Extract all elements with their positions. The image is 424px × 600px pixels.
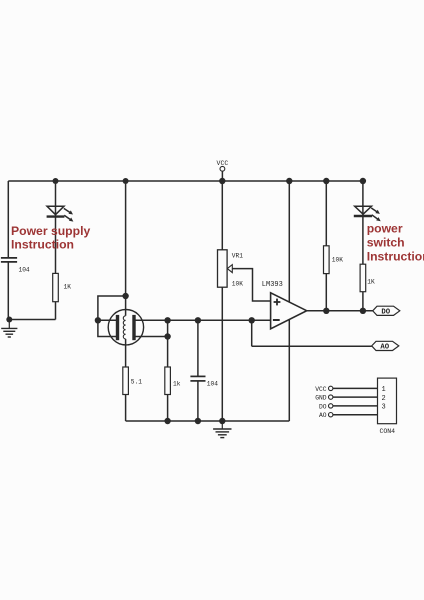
- wire 1k branch vertical: [167, 320, 169, 421]
- CON4 pin 4 wire: [333, 414, 378, 416]
- svg-text:2: 2: [382, 395, 386, 403]
- wire VCC terminal to rail: [221, 171, 223, 181]
- resistor 1k body: [165, 367, 171, 395]
- svg-text:power: power: [367, 222, 403, 236]
- op-amp plus sign: [274, 301, 281, 303]
- node junction rail/10K: [323, 178, 329, 184]
- wire AO tap vertical: [251, 320, 253, 346]
- LED D1 triangle: [47, 206, 64, 215]
- resistor 10K body: [324, 246, 330, 274]
- wire 10K branch vertical: [325, 181, 327, 311]
- wire VR1 wiper to plus input: [232, 269, 270, 301]
- gas sensor MQ body circle: [108, 310, 143, 345]
- wire VR1 branch vertical top: [221, 181, 223, 250]
- wire C2 branch upper: [197, 320, 199, 376]
- svg-text:1K: 1K: [64, 284, 72, 291]
- svg-text:104: 104: [207, 381, 218, 388]
- op-amp minus sign: [273, 319, 280, 321]
- wire lower electrode link: [134, 336, 168, 338]
- node junction rail/VCC: [219, 178, 225, 184]
- wire bottom ground rail: [126, 420, 290, 422]
- LED D1 light arrow 2: [64, 215, 71, 220]
- node junction output/10K: [323, 308, 329, 314]
- wire power switch LED branch vertical: [362, 181, 364, 311]
- op-amp U1 LM393 triangle: [271, 293, 307, 329]
- node junction lower electrode/1k: [164, 333, 170, 339]
- wire AO horizontal: [252, 345, 372, 347]
- VR1 wiper arrow: [227, 265, 232, 273]
- node junction rail/C2: [195, 418, 201, 424]
- wire VCC top rail: [8, 180, 363, 182]
- node junction rail/LED2: [360, 178, 366, 184]
- svg-text:AO: AO: [380, 344, 389, 352]
- svg-text:104: 104: [19, 267, 30, 274]
- potentiometer VR1 body: [218, 250, 228, 287]
- svg-text:5.1: 5.1: [131, 379, 142, 386]
- svg-text:10K: 10K: [232, 281, 243, 288]
- svg-text:VCC: VCC: [217, 160, 229, 167]
- LED D1 light arrow 1: [64, 208, 71, 213]
- ground symbol middle: [221, 421, 223, 429]
- wire 1K bottom to ground node: [8, 319, 55, 321]
- sensor heater coil: [123, 316, 125, 339]
- svg-text:VCC: VCC: [315, 386, 327, 393]
- svg-text:VR1: VR1: [232, 253, 243, 260]
- capacitor C1 plates: [1, 257, 17, 259]
- port flag AO: [372, 341, 399, 350]
- LED D2 light arrow 2: [372, 215, 379, 220]
- CON4 pin 2 wire: [333, 396, 378, 398]
- LED D2 cathode bar: [354, 215, 372, 218]
- LED D2 triangle: [355, 206, 372, 214]
- CON4 pin 1 wire: [333, 387, 378, 389]
- svg-text:1: 1: [382, 386, 386, 394]
- svg-text:CON4: CON4: [379, 428, 395, 435]
- wire divider line to comparator minus: [134, 319, 271, 321]
- svg-text:LM393: LM393: [262, 281, 283, 289]
- node junction rail/1k: [164, 418, 170, 424]
- wire LM393 supply vertical: [288, 181, 290, 421]
- svg-text:Instruction: Instruction: [11, 237, 74, 251]
- svg-text:switch: switch: [367, 235, 405, 249]
- svg-text:AO: AO: [319, 412, 327, 419]
- sensor right electrode: [132, 315, 135, 340]
- wire left vertical above C1: [7, 181, 9, 258]
- svg-text:1k: 1k: [173, 381, 181, 388]
- wire sensor branch vertical from rail: [125, 181, 127, 316]
- svg-text:DO: DO: [381, 308, 390, 316]
- connector CON4 body: [378, 378, 397, 424]
- node junction divider/1k: [164, 317, 170, 323]
- resistor 5.1 body: [123, 367, 129, 395]
- LED D2 light arrow 1: [371, 208, 377, 212]
- node junction rail/ground: [219, 418, 225, 424]
- svg-text:DO: DO: [319, 403, 327, 410]
- node junction rail/LM393 supply: [286, 178, 292, 184]
- sensor left electrode: [116, 315, 119, 340]
- wire C2 branch lower: [197, 381, 199, 421]
- node junction minus/AO: [249, 317, 255, 323]
- svg-text:GND: GND: [315, 395, 327, 402]
- VCC terminal circle: [220, 166, 225, 171]
- node junction left bracket: [95, 317, 101, 323]
- node junction output/1K: [360, 308, 366, 314]
- wire sensor bottom to 5.1 resistor: [125, 339, 127, 421]
- svg-text:Instruction: Instruction: [367, 249, 424, 263]
- svg-text:10K: 10K: [332, 257, 343, 264]
- svg-text:3: 3: [382, 404, 386, 412]
- wire power LED branch vertical: [55, 181, 57, 320]
- wire VR1 branch vertical bottom: [221, 287, 223, 421]
- svg-text:1K: 1K: [367, 279, 375, 286]
- wire left electrode mid tap: [98, 319, 118, 321]
- CON4 pin 3 wire: [333, 405, 378, 407]
- node junction rail/LED branch: [53, 178, 59, 184]
- wire left vertical below C1: [7, 262, 9, 320]
- resistor R1 1K body: [53, 273, 59, 301]
- capacitor C2 plates: [190, 375, 205, 377]
- port flag DO: [373, 306, 400, 315]
- node ground junction left: [6, 317, 12, 323]
- node junction rail/sensor branch: [123, 178, 129, 184]
- resistor 1K right body: [360, 264, 366, 292]
- svg-text:Power supply: Power supply: [11, 224, 90, 238]
- node junction sensor top: [122, 293, 128, 299]
- node junction divider/C2: [195, 317, 201, 323]
- LED D1 cathode bar: [47, 215, 65, 217]
- wire sensor left bracket: [98, 296, 126, 337]
- ground symbol left: [8, 320, 10, 329]
- wire comparator output: [307, 310, 374, 312]
